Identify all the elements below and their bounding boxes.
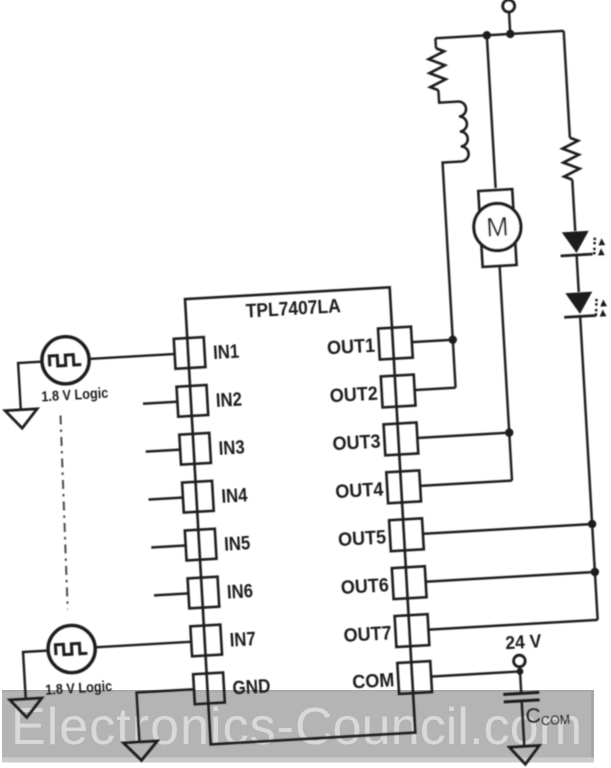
wire R2 to LED D1 <box>572 180 575 231</box>
wire OUT4 <box>420 481 512 486</box>
wire COM to 24V node <box>431 671 520 676</box>
svg-text:IN5: IN5 <box>224 532 251 555</box>
supply terminal (top) <box>502 0 515 12</box>
LED D1 light arrows <box>592 237 606 256</box>
ground (V1) <box>5 409 38 429</box>
signal source V1 (square wave) <box>41 335 91 385</box>
pin box OUT7 <box>395 614 430 647</box>
wire OUT5 <box>423 524 592 534</box>
inductor L1 <box>458 101 469 161</box>
wire terminal to COM wire <box>519 666 522 671</box>
source V2 waveform <box>55 643 87 655</box>
junction node (terminal) <box>506 30 515 39</box>
svg-text:OUT5: OUT5 <box>338 526 387 551</box>
wire OUT3 <box>417 433 509 438</box>
ground (GND pin) <box>123 741 158 761</box>
wire capacitor to ground <box>522 701 525 746</box>
wire D1 to LED D2 <box>577 255 579 292</box>
pin box OUT4 <box>386 470 421 503</box>
ground (V2) <box>10 698 43 718</box>
svg-text:IN6: IN6 <box>226 580 253 603</box>
watermark band <box>2 690 594 758</box>
svg-text:IN2: IN2 <box>215 389 242 412</box>
motor M1 frame <box>478 189 516 267</box>
node COM/cap <box>516 668 523 675</box>
signal source V2 (square wave) <box>47 624 97 674</box>
wire D2 to OUT7 corner <box>580 316 597 619</box>
LED D2 cathode bar <box>564 315 596 317</box>
svg-text:Electronics-Council.com: Electronics-Council.com <box>11 698 582 756</box>
wire OUT7 <box>428 620 597 630</box>
svg-text:OUT1: OUT1 <box>326 335 375 360</box>
pin box OUT3 <box>384 422 419 455</box>
wire GND pin to ground <box>137 689 197 742</box>
wire V2 to ground <box>23 651 51 699</box>
LED D2 <box>565 292 593 315</box>
wire V1 to IN1 <box>89 354 175 359</box>
wire V1 to ground <box>18 362 45 410</box>
continuation dash-dot line <box>57 415 72 609</box>
pin box IN3 <box>179 433 211 465</box>
wire OUT3 node to OUT4 <box>509 433 512 481</box>
wire rail to resistor R2 <box>564 31 570 138</box>
wire input stub <box>146 450 180 452</box>
svg-text:IN7: IN7 <box>229 628 256 651</box>
wire terminal to rail <box>509 11 510 33</box>
svg-text:OUT4: OUT4 <box>335 479 384 504</box>
pin box GND <box>193 673 225 705</box>
pin box OUT2 <box>381 375 416 408</box>
source V1 waveform <box>49 354 81 366</box>
resistor R2 <box>562 137 580 180</box>
capacitor C_COM <box>503 692 539 702</box>
ground (C_COM) <box>509 745 540 765</box>
wire input stub <box>143 402 177 404</box>
LED D1 <box>562 231 590 254</box>
svg-text:M: M <box>485 211 509 242</box>
node OUT5/LED chain <box>588 520 597 529</box>
wire OUT6 <box>426 572 595 582</box>
pin box IN2 <box>177 385 209 417</box>
svg-text:IN1: IN1 <box>213 341 240 364</box>
node OUT6/LED chain <box>590 568 599 577</box>
wire input stub <box>154 593 188 595</box>
wire L1 to OUT1 node <box>443 161 472 339</box>
wire rail to resistor R1 <box>434 38 437 48</box>
wire OUT2 <box>415 388 456 390</box>
pin box IN6 <box>188 577 220 609</box>
wire node to capacitor <box>520 671 521 693</box>
svg-text:GND: GND <box>232 675 271 699</box>
resistor R1 <box>428 48 446 91</box>
wire top rail <box>435 31 563 38</box>
pin box IN7 <box>190 625 222 657</box>
node OUT3/motor <box>505 428 514 437</box>
junction node (motor branch) <box>482 31 491 40</box>
pin box OUT1 <box>378 327 413 360</box>
node OUT1/L1 <box>448 335 457 344</box>
svg-text:COM: COM <box>352 669 395 693</box>
motor M1 circle <box>473 202 523 252</box>
LED D2 light arrows <box>594 298 608 317</box>
svg-text:OUT6: OUT6 <box>340 574 389 599</box>
svg-text:OUT7: OUT7 <box>343 622 392 647</box>
svg-text:IN3: IN3 <box>218 436 245 459</box>
wire V2 to IN7 <box>95 642 191 648</box>
IC U1 TPL7407LA body <box>185 287 415 744</box>
svg-text:TPL7407LA: TPL7407LA <box>245 296 341 322</box>
24V terminal <box>513 655 525 667</box>
wire motor to OUT3 node <box>500 266 510 433</box>
wire rail to motor <box>487 35 496 188</box>
wire input stub <box>151 545 185 547</box>
svg-text:24 V: 24 V <box>505 631 542 653</box>
svg-text:OUT3: OUT3 <box>332 431 381 456</box>
pin box IN1 <box>174 337 206 369</box>
LED D1 cathode bar <box>561 254 593 256</box>
pin box IN4 <box>182 481 214 513</box>
wire input stub <box>148 498 182 500</box>
pin box IN5 <box>185 529 217 561</box>
pin box OUT5 <box>389 518 424 551</box>
wire R1 to inductor L1 <box>438 89 458 103</box>
pin box OUT6 <box>392 566 427 599</box>
svg-text:IN4: IN4 <box>221 484 248 507</box>
svg-text:1.8 V Logic: 1.8 V Logic <box>41 385 109 406</box>
svg-text:OUT2: OUT2 <box>329 383 378 408</box>
wire OUT1 <box>412 340 453 342</box>
watermark band lower strip <box>2 758 594 763</box>
wire OUT1 node to OUT2 <box>453 340 456 388</box>
pin box COM <box>397 661 432 694</box>
